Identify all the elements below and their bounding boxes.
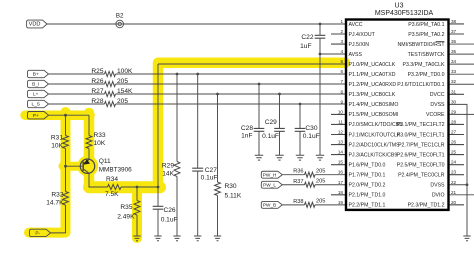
highlight: collector row R34 — [89, 181, 160, 193]
svg-text:11: 11 — [338, 120, 343, 125]
wire P+ row — [49, 114, 90, 116]
svg-text:L+: L+ — [33, 92, 39, 98]
svg-text:9: 9 — [340, 99, 343, 104]
svg-text:C26: C26 — [164, 207, 176, 214]
wire VDD to B2 to U3 pin1 — [47, 23, 346, 25]
svg-text:P3.3/PM_TA0CLK: P3.3/PM_TA0CLK — [403, 62, 446, 68]
right pin stubs — [449, 24, 465, 205]
svg-text:0.1uF: 0.1uF — [201, 175, 218, 182]
svg-text:PJ.1/MCLK/TOUTCLK: PJ.1/MCLK/TOUTCLK — [349, 132, 401, 138]
highlight: R33/Q11 column — [84, 113, 95, 187]
svg-text:19: 19 — [338, 200, 344, 205]
svg-text:205: 205 — [117, 98, 128, 105]
svg-text:205: 205 — [316, 199, 325, 205]
IC U3 MSP430F5132IDA box — [346, 20, 449, 210]
wire L_S row to pin9 — [49, 103, 347, 105]
wire R32 bottom to P- — [51, 205, 66, 233]
svg-text:VCORE: VCORE — [426, 112, 445, 118]
svg-text:16: 16 — [338, 170, 344, 175]
svg-text:37: 37 — [451, 29, 457, 34]
svg-text:14.7K: 14.7K — [46, 200, 64, 207]
svg-text:R36: R36 — [293, 169, 303, 175]
svg-text:36: 36 — [451, 39, 457, 44]
svg-text:P2.4/PM_TEC0CLR: P2.4/PM_TEC0CLR — [398, 173, 445, 179]
svg-text:R35: R35 — [120, 204, 132, 211]
svg-text:PJ.5/XIN: PJ.5/XIN — [349, 42, 370, 48]
resistor R35 2.49K — [134, 201, 140, 216]
svg-text:R38: R38 — [293, 199, 303, 205]
wire R35 branch — [136, 187, 138, 236]
wire B_I row to pin7 — [49, 83, 347, 85]
svg-text:7.5K: 7.5K — [105, 191, 119, 198]
svg-text:P1.3/PM_UCB0CLK: P1.3/PM_UCB0CLK — [349, 92, 396, 98]
svg-text:R32: R32 — [51, 192, 63, 199]
svg-text:DVSS: DVSS — [430, 102, 445, 108]
svg-text:22: 22 — [451, 180, 457, 185]
ground under C28 — [255, 155, 263, 160]
port flag PW_B — [261, 201, 282, 208]
svg-text:1: 1 — [340, 19, 343, 24]
port flag PW_H — [261, 171, 282, 178]
svg-text:P2.1/PM_TD1.0: P2.1/PM_TD1.0 — [349, 193, 386, 199]
U3 left pin names — [349, 22, 403, 209]
capacitor C22 1uF — [315, 35, 326, 38]
svg-text:TEST/SBWTCK: TEST/SBWTCK — [408, 52, 445, 58]
wire R33 bottom to Q11 emitter — [88, 149, 90, 160]
ground under C26 — [154, 236, 161, 241]
ferrite bead B2 — [116, 20, 124, 28]
ground under C30 — [296, 155, 304, 160]
svg-text:32: 32 — [451, 79, 457, 84]
resistor R30 5.11K — [215, 182, 221, 196]
svg-text:AVSS: AVSS — [349, 52, 363, 58]
wire R31 top branch — [65, 115, 67, 135]
svg-text:10K: 10K — [51, 143, 63, 150]
resistor R28 205 — [105, 102, 116, 107]
wire PW_L to R37 to pin17 — [282, 184, 346, 186]
ground under R35 — [133, 236, 140, 241]
highlight: R31/R32 column down to P- — [29, 112, 66, 233]
svg-text:38: 38 — [451, 19, 457, 24]
highlight: pin5 wire to U3 — [158, 58, 345, 69]
svg-text:P3.1/PM_TEC1FLT2: P3.1/PM_TEC1FLT2 — [397, 122, 445, 128]
ground under C29 — [275, 155, 283, 160]
svg-text:B+: B+ — [33, 72, 39, 78]
wire R33 top branch — [88, 115, 90, 135]
svg-text:P-: P- — [35, 231, 40, 237]
svg-text:20: 20 — [451, 200, 457, 205]
svg-text:2.49K: 2.49K — [117, 214, 135, 221]
capacitor C29 0.1uF — [274, 128, 285, 131]
svg-text:P1.0/PM_UCA0CLK: P1.0/PM_UCA0CLK — [349, 62, 396, 68]
svg-text:18: 18 — [338, 190, 344, 195]
resistor R26 205 — [105, 82, 116, 87]
svg-text:26: 26 — [451, 140, 457, 145]
svg-text:P2.3/PM_TD1.2: P2.3/PM_TD1.2 — [408, 203, 445, 209]
wire C22 branch vertical AVCC to AVSS to ground — [319, 24, 321, 155]
svg-text:P2.6/PM_TEC0FLT1: P2.6/PM_TEC0FLT1 — [397, 152, 445, 158]
wire Q11 collector down and right through R34 node — [89, 173, 158, 187]
U3 right pin numbers — [451, 19, 457, 205]
ground under R30 — [214, 236, 221, 241]
wire pin21 DVIO to right edge — [449, 194, 474, 196]
svg-text:23: 23 — [451, 170, 457, 175]
svg-text:31: 31 — [451, 89, 457, 94]
capacitor C27 0.1uF — [192, 168, 203, 171]
wire C29 branch L+ to ground — [279, 94, 281, 155]
svg-text:AVCC: AVCC — [349, 22, 363, 28]
svg-text:15: 15 — [338, 160, 344, 165]
svg-text:205: 205 — [316, 179, 325, 185]
svg-text:P2.0/PM_TD0.2: P2.0/PM_TD0.2 — [349, 183, 386, 189]
port flag PW_L — [261, 181, 282, 188]
svg-text:Q11: Q11 — [99, 158, 111, 165]
svg-text:B2: B2 — [116, 13, 124, 20]
ground under R29 — [173, 236, 180, 241]
svg-text:R25: R25 — [91, 68, 103, 75]
svg-text:P2.5/PM_TEC0FLT0: P2.5/PM_TEC0FLT0 — [397, 163, 445, 169]
svg-text:205: 205 — [117, 78, 128, 85]
svg-text:U3: U3 — [395, 3, 404, 10]
wire C28 branch B_I to ground — [258, 84, 260, 155]
svg-text:P3.2/PM_TD0.0: P3.2/PM_TD0.0 — [408, 72, 445, 78]
svg-text:R28: R28 — [91, 98, 103, 105]
wire base to Q11 — [66, 165, 84, 167]
U3 right pin names — [397, 22, 446, 209]
svg-text:100K: 100K — [117, 68, 133, 75]
wire P1.0 pin5 highlighted — [158, 63, 346, 65]
svg-text:205: 205 — [316, 169, 325, 175]
resistor R38 205 — [305, 202, 316, 207]
svg-text:PW_H: PW_H — [263, 172, 277, 177]
svg-text:PJ.0/SMCLK/TDO/CB5: PJ.0/SMCLK/TDO/CB5 — [349, 122, 403, 128]
svg-text:R31: R31 — [51, 135, 63, 142]
svg-text:R30: R30 — [225, 183, 237, 190]
port flag L_S — [28, 100, 49, 107]
svg-text:C28: C28 — [241, 125, 253, 132]
port flag L+ — [28, 90, 49, 97]
svg-text:27: 27 — [451, 130, 457, 135]
wire pin22 DVSS to vertical — [449, 184, 468, 186]
wire R30 branch L+ to ground — [217, 94, 219, 236]
svg-text:P1.6/PM_TD0.0: P1.6/PM_TD0.0 — [349, 163, 386, 169]
svg-text:R26: R26 — [91, 78, 103, 85]
svg-text:14K: 14K — [162, 171, 174, 178]
svg-text:VDD: VDD — [29, 22, 41, 28]
svg-text:PW_L: PW_L — [263, 182, 276, 187]
resistor R27 154K — [105, 92, 116, 97]
svg-text:MSP430F5132IDA: MSP430F5132IDA — [375, 10, 434, 17]
svg-text:C22: C22 — [301, 34, 313, 41]
svg-text:P1.7/PM_TD0.1: P1.7/PM_TD0.1 — [349, 173, 386, 179]
capacitor C30 0.1uF — [295, 128, 306, 131]
highlight: Q11 blob — [77, 156, 98, 177]
U3 left pin numbers — [338, 19, 344, 205]
left pin stubs — [331, 34, 346, 195]
port flag P+ — [28, 112, 49, 119]
svg-text:35: 35 — [451, 49, 457, 54]
wire B+ row to pin6 — [49, 73, 347, 75]
svg-text:33: 33 — [451, 69, 457, 74]
port flag B+ — [28, 70, 49, 77]
svg-text:L_S: L_S — [31, 102, 40, 108]
svg-text:0.1uF: 0.1uF — [303, 133, 320, 140]
svg-text:154K: 154K — [117, 88, 133, 95]
wire C27 branch B+ to ground — [197, 74, 199, 236]
svg-text:PJ.2/ADC10CLK/TMS: PJ.2/ADC10CLK/TMS — [349, 142, 401, 148]
wire pin29 VCORE to right edge — [449, 113, 474, 115]
svg-text:C30: C30 — [305, 125, 317, 132]
wire R31 bottom to R32 top base node — [65, 149, 67, 192]
overline on RST pin36 — [436, 40, 445, 42]
svg-text:P1.4/PM_UCB0SIMO: P1.4/PM_UCB0SIMO — [349, 102, 399, 108]
svg-text:29: 29 — [451, 109, 457, 114]
svg-text:24: 24 — [451, 160, 457, 165]
svg-text:12: 12 — [338, 130, 344, 135]
ground under DVSS right — [463, 236, 470, 241]
svg-text:DVIO: DVIO — [432, 193, 445, 199]
highlight: R35 column + ground — [132, 187, 142, 238]
svg-text:3: 3 — [340, 39, 343, 44]
ground under C27 — [194, 236, 201, 241]
svg-text:P3.0/PM_TEC1FLT1: P3.0/PM_TEC1FLT1 — [397, 132, 445, 138]
ground under AVSS branch — [316, 155, 324, 160]
svg-text:PW_B: PW_B — [263, 203, 276, 208]
resistor R37 205 — [305, 182, 316, 187]
svg-text:25: 25 — [451, 150, 457, 155]
wire PW_H to R36 to pin16 — [282, 174, 346, 176]
wire AVSS pin4 — [320, 53, 346, 55]
port flag B_I — [28, 80, 49, 87]
svg-text:P2.2/PM_TD1.1: P2.2/PM_TD1.1 — [349, 203, 386, 209]
svg-text:1nF: 1nF — [241, 132, 252, 139]
svg-text:4: 4 — [340, 49, 343, 54]
svg-text:R34: R34 — [106, 176, 118, 183]
svg-text:0.1uF: 0.1uF — [262, 133, 279, 140]
svg-text:6: 6 — [340, 69, 343, 74]
svg-text:DVSS: DVSS — [430, 183, 445, 189]
svg-text:0.1uF: 0.1uF — [161, 217, 178, 224]
svg-text:8: 8 — [340, 89, 343, 94]
resistor R29 14K — [174, 162, 180, 177]
svg-text:5: 5 — [340, 59, 343, 64]
svg-text:2: 2 — [340, 29, 343, 34]
svg-text:R37: R37 — [293, 179, 303, 185]
svg-text:P2.7/PM_TEC1CLR: P2.7/PM_TEC1CLR — [398, 142, 445, 148]
svg-text:R27: R27 — [91, 88, 103, 95]
svg-text:13: 13 — [338, 140, 344, 145]
wire R29 branch B+ to ground — [176, 74, 178, 236]
wire C30 branch L_S to ground — [299, 104, 301, 155]
highlight: riser to pin5 — [153, 64, 164, 188]
highlight: base wire — [63, 162, 83, 171]
wire riser P node to pin5 — [157, 64, 159, 187]
svg-text:NMI/SBWTDIO/RST: NMI/SBWTDIO/RST — [398, 42, 446, 48]
svg-text:C29: C29 — [265, 119, 277, 126]
svg-text:P1.2/PM_UCA0RXD: P1.2/PM_UCA0RXD — [349, 82, 397, 88]
svg-text:30: 30 — [451, 99, 457, 104]
wire L+ row to pin8 — [49, 93, 347, 95]
wire C26 branch — [157, 187, 159, 236]
resistor R34 7.5K — [108, 185, 122, 190]
svg-text:28: 28 — [451, 120, 457, 125]
svg-text:R33: R33 — [94, 132, 106, 139]
svg-text:B_I: B_I — [32, 82, 39, 88]
svg-text:1uF: 1uF — [300, 43, 311, 50]
port flag P- — [30, 229, 51, 236]
svg-text:DVCC: DVCC — [430, 92, 445, 98]
svg-text:10: 10 — [338, 109, 344, 114]
wire PW_B to R38 to pin19 — [282, 204, 346, 206]
highlight: P+ wire — [25, 110, 90, 120]
svg-text:7: 7 — [340, 79, 343, 84]
svg-text:PJ.3/ACLK/TCK/CB9: PJ.3/ACLK/TCK/CB9 — [349, 152, 398, 158]
svg-text:MMBT3906: MMBT3906 — [99, 166, 132, 173]
svg-text:P1.5/PM_UCB0SOMI: P1.5/PM_UCB0SOMI — [349, 112, 399, 118]
svg-text:P3.5/PM_TA0.2: P3.5/PM_TA0.2 — [408, 32, 444, 38]
svg-text:34: 34 — [451, 59, 457, 64]
svg-text:C27: C27 — [205, 167, 217, 174]
transistor Q11 MMBT3906 — [80, 159, 94, 173]
svg-text:21: 21 — [451, 190, 457, 195]
capacitor C26 0.1uF — [153, 206, 164, 209]
resistor R31 10K — [63, 136, 69, 149]
power flag VDD — [27, 20, 47, 28]
svg-text:17: 17 — [338, 180, 344, 185]
svg-text:P1.1/PM_UCA0TXD: P1.1/PM_UCA0TXD — [349, 72, 396, 78]
svg-text:5.11K: 5.11K — [225, 192, 242, 199]
resistor R36 205 — [305, 172, 316, 177]
svg-text:P3.6/PM_TA0.1: P3.6/PM_TA0.1 — [408, 22, 444, 28]
svg-text:R29: R29 — [162, 163, 174, 170]
svg-text:PJ.6/TD1CLK/TD0.1: PJ.6/TD1CLK/TD0.1 — [397, 82, 444, 88]
capacitor C28 1nF — [254, 128, 265, 131]
resistor R25 100K — [105, 72, 116, 77]
resistor R32 14.7K — [63, 192, 69, 206]
wire pin30 DVSS down right side — [449, 104, 468, 236]
svg-text:PJ.4/XOUT: PJ.4/XOUT — [349, 32, 376, 38]
resistor R33 10K — [86, 136, 92, 149]
wires pins 36,35,34,33,32 to right edge — [449, 44, 474, 84]
svg-text:10K: 10K — [94, 140, 106, 147]
svg-text:P+: P+ — [33, 113, 39, 119]
svg-text:14: 14 — [338, 150, 344, 155]
